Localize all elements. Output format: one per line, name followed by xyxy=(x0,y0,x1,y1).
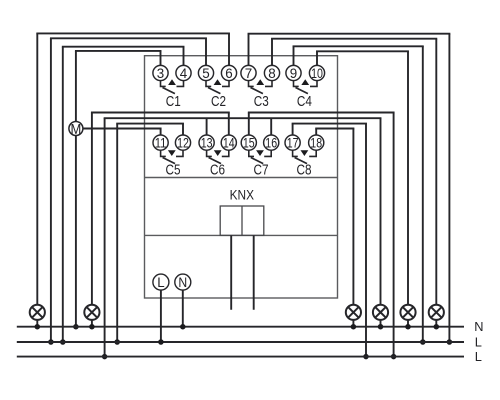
svg-text:8: 8 xyxy=(268,66,275,81)
svg-text:14: 14 xyxy=(223,136,235,151)
svg-text:L: L xyxy=(475,349,482,364)
svg-text:5: 5 xyxy=(202,66,209,81)
svg-text:13: 13 xyxy=(201,136,213,151)
svg-text:C5: C5 xyxy=(166,162,181,178)
svg-text:L: L xyxy=(157,275,165,291)
svg-text:10: 10 xyxy=(311,66,323,81)
svg-text:16: 16 xyxy=(265,136,277,151)
svg-text:18: 18 xyxy=(310,136,322,151)
svg-text:12: 12 xyxy=(177,136,189,151)
svg-text:M: M xyxy=(71,121,82,138)
svg-text:7: 7 xyxy=(245,66,252,81)
svg-text:C1: C1 xyxy=(166,94,181,110)
svg-text:15: 15 xyxy=(243,136,255,151)
svg-text:11: 11 xyxy=(155,136,167,151)
svg-text:3: 3 xyxy=(157,66,164,81)
svg-text:4: 4 xyxy=(180,66,188,81)
svg-text:KNX: KNX xyxy=(230,188,254,203)
svg-text:N: N xyxy=(474,319,483,334)
svg-text:C2: C2 xyxy=(211,94,226,110)
svg-text:C8: C8 xyxy=(297,162,312,178)
svg-text:C7: C7 xyxy=(254,162,269,178)
svg-text:N: N xyxy=(178,275,187,291)
svg-text:6: 6 xyxy=(225,66,232,81)
svg-text:17: 17 xyxy=(287,136,299,151)
svg-text:C3: C3 xyxy=(254,94,269,110)
svg-text:C6: C6 xyxy=(210,162,225,178)
svg-text:C4: C4 xyxy=(297,94,312,110)
svg-text:L: L xyxy=(475,335,482,350)
svg-text:9: 9 xyxy=(290,66,297,81)
